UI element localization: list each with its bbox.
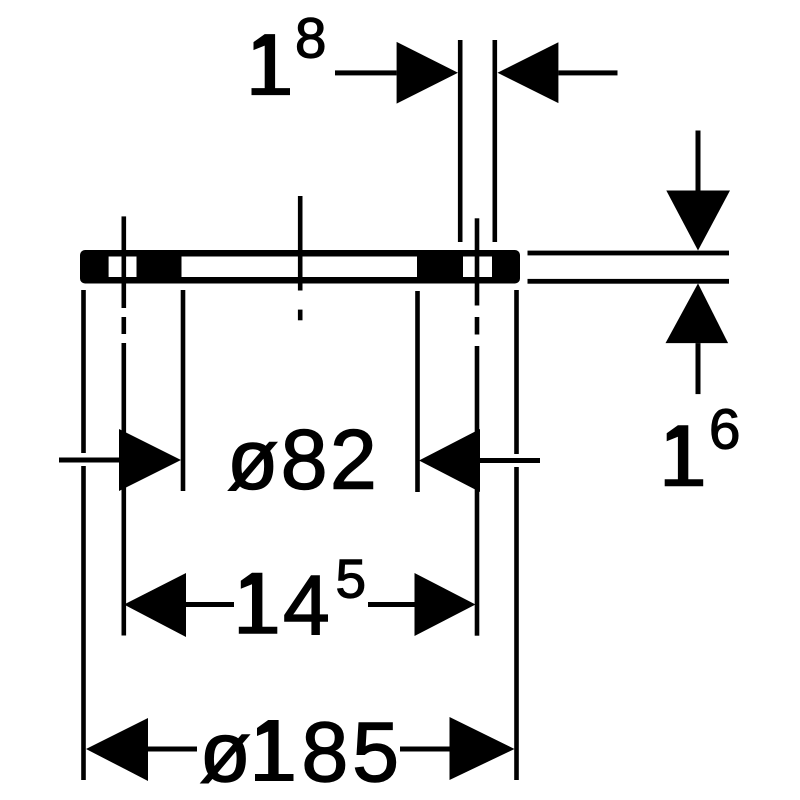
svg-text:6: 6 (709, 397, 740, 460)
svg-text:ø: ø (200, 705, 251, 799)
svg-text:ø82: ø82 (227, 413, 379, 507)
svg-text:8: 8 (295, 6, 326, 69)
svg-text:85: 85 (302, 705, 403, 799)
svg-text:4: 4 (283, 558, 330, 652)
svg-text:5: 5 (336, 548, 367, 610)
